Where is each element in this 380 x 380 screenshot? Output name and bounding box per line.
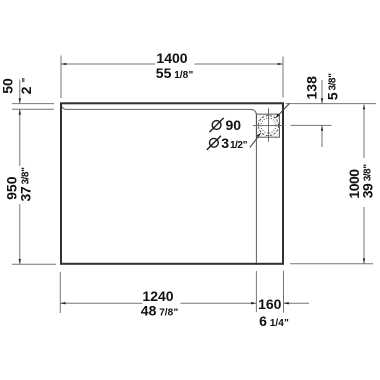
svg-text:90: 90 <box>226 117 242 133</box>
svg-text:1400: 1400 <box>156 50 187 66</box>
svg-text:50: 50 <box>0 78 15 94</box>
svg-text:138: 138 <box>304 76 320 100</box>
svg-text:160: 160 <box>258 296 282 312</box>
